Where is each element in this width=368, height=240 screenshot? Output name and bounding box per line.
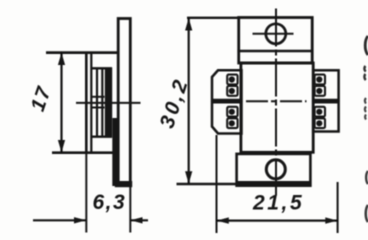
arrowhead up 30,2 — [185, 18, 192, 31]
fragment marks 2 — [365, 98, 366, 120]
flange bottom tab — [237, 154, 311, 186]
vertical centerline — [275, 9, 277, 196]
dimension line 6,3 left shaft — [33, 219, 86, 221]
body inner wall — [90, 54, 92, 154]
extension line top of body — [46, 51, 118, 54]
svg-text:21,5: 21,5 — [252, 192, 304, 215]
lead square L4 — [227, 118, 237, 128]
fragment bracket mid — [366, 171, 368, 184]
arrowhead left 6,3 — [130, 217, 142, 223]
lead dot L3 — [229, 109, 235, 115]
top mounting hole — [266, 24, 286, 44]
upper right lead tab — [313, 70, 338, 100]
lead tick lower — [92, 107, 105, 109]
flange left face thick lower bar — [112, 118, 118, 186]
arrowhead down 17 — [58, 140, 65, 152]
fragment marks 1 — [364, 66, 365, 80]
extension / body bottom edge — [52, 151, 118, 154]
svg-text:6,3: 6,3 — [93, 191, 127, 214]
extension line 30,2 top — [187, 17, 240, 19]
arrowhead right 6,3 — [74, 217, 86, 223]
lead square L2 — [227, 86, 237, 96]
extension line 30,2 bottom — [177, 183, 238, 185]
lead dot R2 — [316, 88, 322, 94]
lead block right line — [101, 69, 103, 137]
lead block bottom cap — [92, 136, 112, 138]
lead dot L2 — [229, 88, 235, 94]
lead square L3 — [227, 107, 237, 117]
extension line 21,5 right — [337, 182, 339, 233]
arrowhead up 17 — [58, 53, 65, 65]
lead square R1 — [315, 75, 325, 85]
lead square R3 — [315, 107, 325, 117]
dimension line 30,2 — [188, 18, 190, 184]
lead dot R4 — [316, 120, 322, 126]
hole crosshair — [253, 33, 294, 35]
lead block top cap — [92, 67, 112, 69]
lead dot L1 — [229, 76, 235, 82]
arrowhead down 30,2 — [185, 171, 192, 184]
fragment bracket top — [365, 36, 368, 55]
svg-text:17: 17 — [27, 83, 56, 114]
arrowhead left 21,5 — [217, 217, 229, 223]
lead block left line — [96, 69, 98, 137]
extension line 6,3 right — [129, 187, 131, 233]
flange bottom dark edge — [236, 181, 312, 187]
lead dot R1 — [316, 76, 322, 82]
upper left lead tab — [212, 70, 242, 100]
lead square L1 — [227, 75, 237, 85]
fragment bracket low — [366, 205, 368, 222]
bottom mounting hole — [266, 160, 285, 179]
dimension line 6,3 right shaft — [131, 219, 149, 221]
dimension line 21,5 — [217, 220, 338, 222]
lead square R4 — [315, 118, 325, 128]
extension line 21,5 left — [216, 135, 218, 233]
arrowhead right 21,5 — [325, 217, 337, 223]
extension line 6,3 left — [85, 154, 87, 233]
flange top tab — [239, 18, 313, 64]
lead dot L4 — [229, 120, 235, 126]
body outline — [241, 63, 313, 152]
lower left lead tab — [212, 102, 242, 133]
lead square R2 — [315, 86, 325, 96]
body left face — [85, 53, 88, 154]
lower right lead tab — [313, 102, 338, 131]
lead tick upper — [92, 96, 105, 98]
lead dot R3 — [316, 109, 322, 115]
flange side outline — [118, 19, 130, 186]
flange dark bottom — [115, 181, 132, 187]
centerline left view — [76, 102, 141, 104]
horizontal centerline body — [246, 100, 307, 102]
flange neck line — [239, 50, 313, 53]
dark stud bar — [105, 68, 112, 138]
dimension line 17 — [60, 53, 62, 152]
